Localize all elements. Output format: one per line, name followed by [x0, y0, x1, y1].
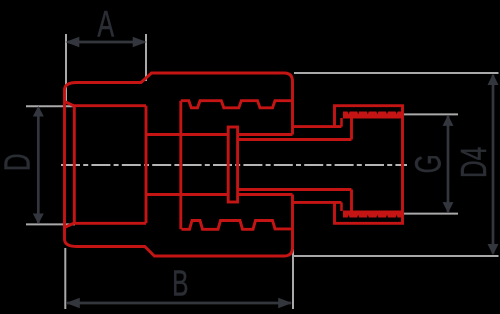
thread band top [343, 112, 403, 119]
dimension G line [447, 116, 450, 212]
thread band bottom serrations [348, 215, 398, 218]
dimension A arrowhead left [65, 37, 79, 47]
insert collar flange [228, 127, 237, 202]
socket mouth chamfer bottom [65, 223, 75, 228]
thread band top serrations [348, 111, 398, 114]
svg-text:B: B [172, 263, 188, 304]
socket bore bottom line [74, 222, 146, 225]
thread relief top [340, 118, 343, 127]
svg-text:A: A [97, 2, 114, 44]
dimension D4 arrowhead bottom [488, 244, 499, 255]
bore line lower left of collar [146, 193, 228, 196]
socket end face outer edge [63, 102, 66, 228]
stem outer top [293, 125, 342, 128]
dimension D arrowhead top [33, 106, 44, 117]
thread band bottom [343, 211, 403, 218]
svg-text:D4: D4 [453, 147, 494, 178]
thread relief bottom [340, 202, 343, 211]
bore line upper left of collar [146, 133, 228, 136]
dimension D line [37, 107, 40, 223]
dimension A arrowhead right [133, 37, 147, 47]
extension line D top [26, 105, 75, 107]
socket mouth chamfer top [65, 102, 75, 107]
extension line G bottom [404, 213, 458, 215]
dimension B line [67, 302, 291, 305]
dimension B arrowhead left [66, 298, 80, 308]
extension line B left [64, 248, 66, 309]
nut outline [335, 106, 403, 224]
inner bore upper line [238, 138, 352, 141]
extension line D bottom [26, 223, 75, 225]
knurl teeth top [181, 101, 293, 108]
dimension G arrowhead top [443, 115, 454, 126]
dimension B arrowhead right [278, 298, 292, 308]
socket bore top line [74, 104, 146, 107]
dimension D4 arrowhead top [488, 74, 499, 85]
extension line A right [145, 34, 147, 81]
socket inner wall edge [73, 106, 76, 223]
extension line B right [292, 249, 294, 309]
knurl teeth bottom [181, 221, 292, 230]
stem outer bottom [293, 201, 342, 204]
centerline (axis) [61, 164, 407, 166]
knurl left edge [179, 101, 182, 230]
fitting outer profile top (red) [65, 73, 293, 135]
bore line lower right of collar [237, 193, 292, 196]
svg-text:D: D [0, 153, 38, 171]
thread end face upper [350, 113, 353, 140]
fitting outer profile bottom (red) [65, 195, 293, 257]
extension line G top [404, 113, 458, 115]
dimension A line [68, 41, 144, 44]
extension line D4 bottom [293, 255, 499, 257]
extension line D4 top [294, 72, 499, 74]
dimension D4 line [492, 75, 495, 254]
dimension G arrowhead bottom [443, 202, 454, 213]
thread end face lower [350, 190, 353, 217]
dimension D arrowhead bottom [33, 214, 44, 225]
svg-text:G: G [408, 154, 449, 173]
inner bore lower line [238, 188, 352, 191]
socket end wall [145, 106, 148, 224]
bore line upper right of collar [237, 133, 292, 136]
extension line A left [65, 34, 67, 102]
